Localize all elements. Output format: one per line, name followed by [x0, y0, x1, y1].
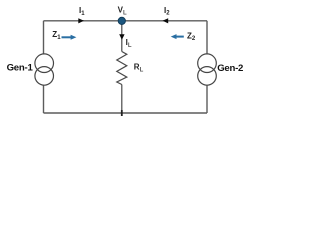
- svg-text:Z2: Z2: [187, 31, 196, 42]
- svg-text:IL: IL: [126, 38, 132, 49]
- node VL (blue dot): [118, 17, 125, 24]
- wire center vertical upper: [121, 21, 123, 52]
- svg-text:I2: I2: [164, 6, 170, 17]
- svg-text:VL: VL: [118, 6, 127, 17]
- svg-text:RL: RL: [134, 63, 144, 74]
- wire left vertical: [43, 21, 45, 113]
- impedance arrow Z2 (blue, left): [171, 34, 184, 39]
- resistor RL zigzag: [117, 52, 127, 85]
- ground junction stub: [121, 110, 123, 116]
- current arrow I2 (black, left): [163, 18, 169, 23]
- wire bottom: [44, 112, 208, 114]
- impedance arrow Z1 (blue, right): [62, 35, 77, 40]
- svg-text:I1: I1: [79, 6, 85, 17]
- svg-text:Z1: Z1: [52, 30, 61, 41]
- wire center vertical lower: [121, 85, 123, 114]
- svg-text:Gen-1: Gen-1: [7, 62, 34, 73]
- wire right vertical: [206, 21, 208, 113]
- current arrow IL (black, down): [119, 34, 124, 40]
- wire top: [44, 20, 208, 22]
- generator Gen-2 symbol (two overlapping circles): [198, 54, 217, 85]
- svg-text:Gen-2: Gen-2: [217, 63, 243, 74]
- current arrow I1 (black, right): [78, 18, 84, 23]
- generator Gen-1 symbol (two overlapping circles): [35, 54, 54, 85]
